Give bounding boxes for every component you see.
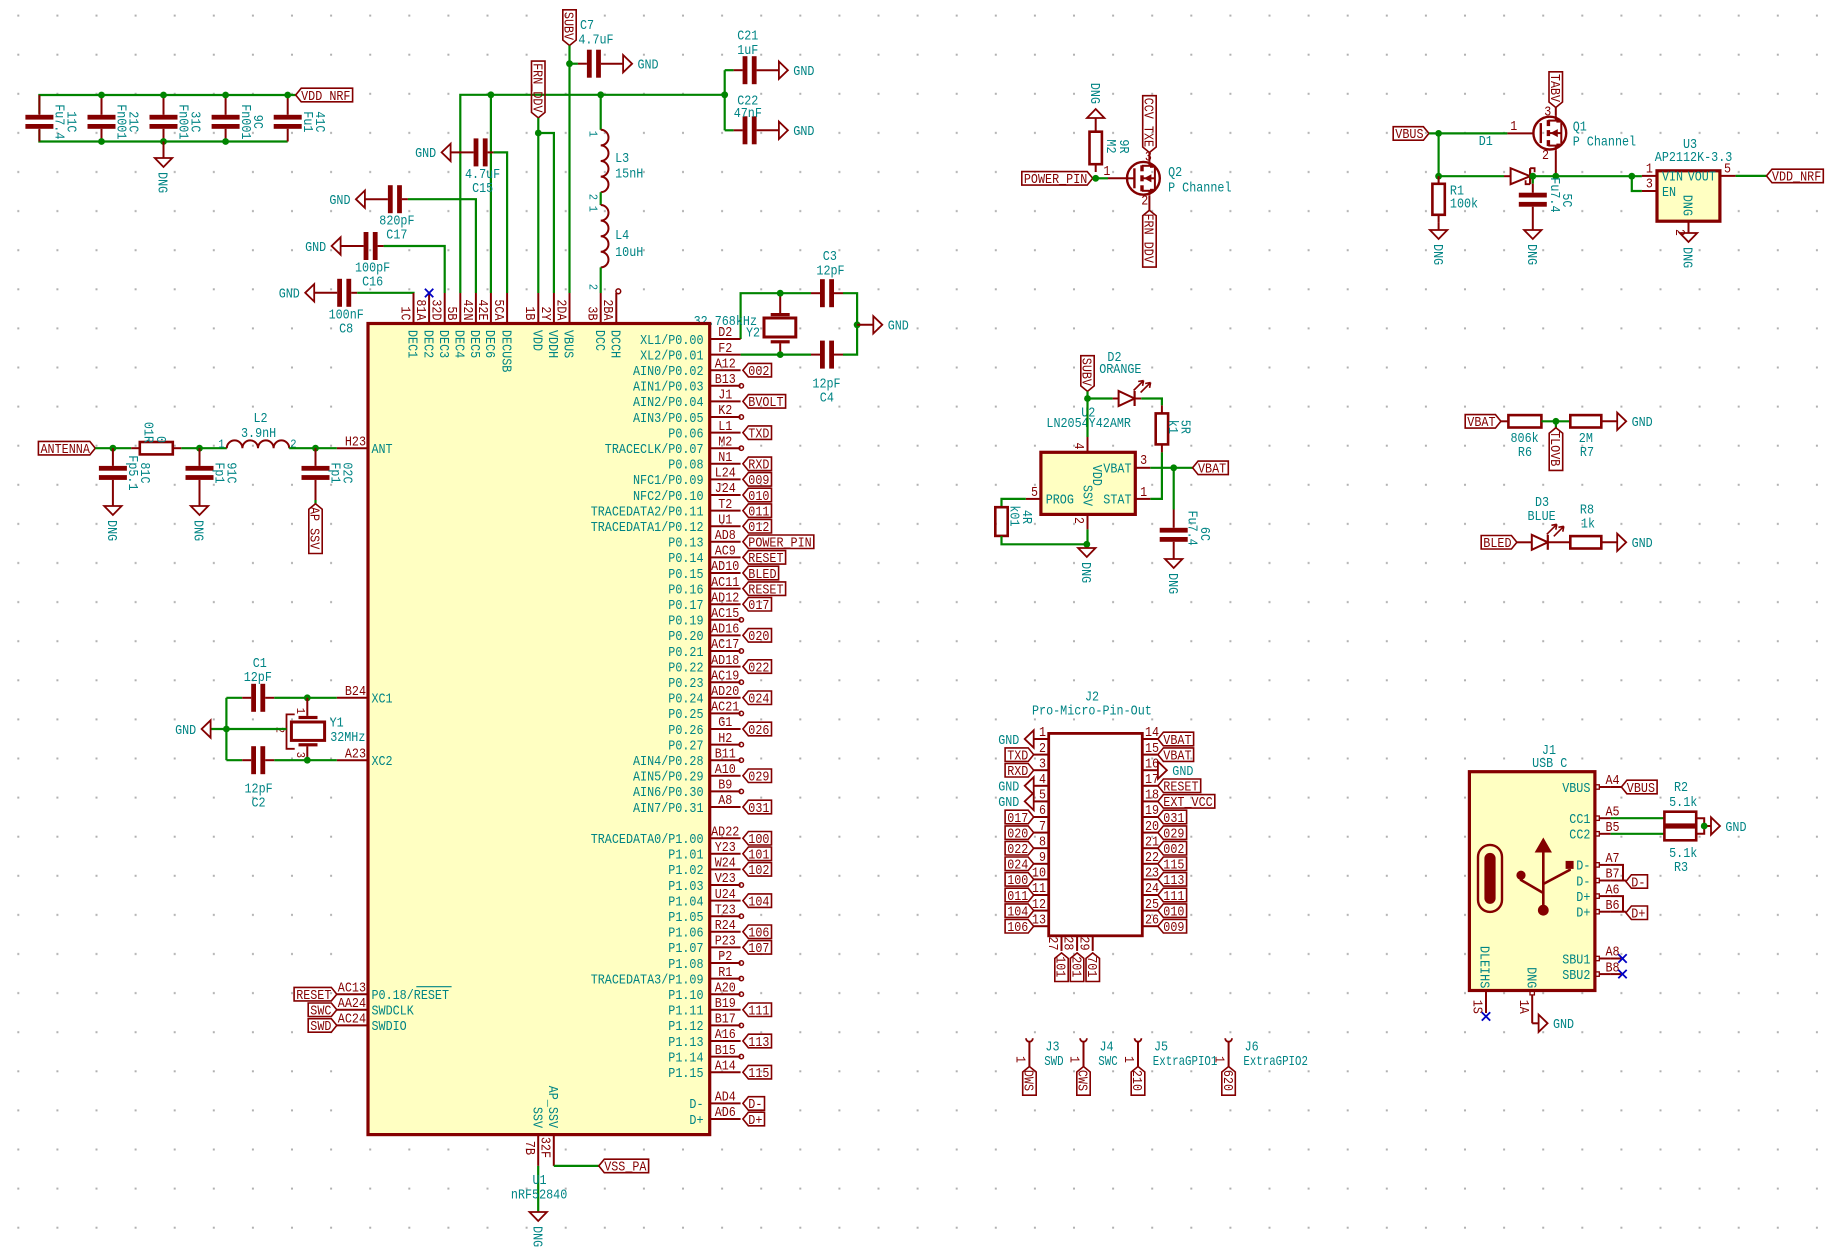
svg-text:USB C: USB C (1532, 756, 1567, 772)
pin 2 GND (1671, 195, 1695, 236)
power label VDD_NRF (296, 88, 353, 105)
pin AD8 P0.13 (668, 528, 740, 552)
svg-text:G1: G1 (718, 715, 732, 731)
svg-text:02C: 02C (339, 462, 355, 483)
label 100 (1005, 873, 1034, 890)
wire (1141, 399, 1162, 406)
svg-text:L2: L2 (254, 411, 268, 427)
junction (1435, 130, 1442, 137)
svg-text:L4: L4 (615, 228, 629, 244)
pin T2 TRACEDATA2/P0.11 (591, 497, 741, 521)
svg-text:P1.14: P1.14 (668, 1050, 703, 1066)
svg-text:102: 102 (748, 863, 769, 879)
svg-text:AIN4/P0.28: AIN4/P0.28 (633, 754, 704, 770)
svg-text:NFC1/P0.09: NFC1/P0.09 (633, 473, 704, 489)
pin AD4 D- (689, 1090, 740, 1114)
resistor R3 (1611, 827, 1698, 876)
pin 3 VBAT (1103, 453, 1150, 477)
wire VDD_NRF rail (460, 95, 724, 293)
svg-text:3: 3 (1646, 177, 1653, 193)
wire DEC6 (490, 95, 492, 293)
label VBAT (1158, 732, 1194, 749)
junction (721, 91, 728, 98)
power label EXT_VCC (1140, 96, 1157, 162)
wire C21 C22 branch (724, 70, 726, 130)
wire VBAT rail (1439, 175, 1511, 177)
pin 26 (1142, 912, 1159, 928)
pin 21 (1142, 834, 1159, 850)
resistor R9 (1090, 118, 1131, 172)
wire (568, 46, 570, 64)
svg-text:P0.13: P0.13 (668, 536, 703, 552)
pin 13 (1032, 912, 1049, 928)
label 009 (1158, 920, 1187, 937)
svg-text:1: 1 (1646, 162, 1653, 178)
pin AC9 P0.14 (668, 544, 740, 568)
svg-text:FRN_DDV: FRN_DDV (1140, 214, 1156, 264)
svg-text:41C: 41C (311, 111, 327, 132)
wire Q1 drain (1555, 150, 1557, 176)
wire XL2 to crystal (741, 354, 781, 356)
svg-text:P2: P2 (718, 949, 732, 965)
svg-text:DNG: DNG (1429, 244, 1445, 265)
svg-text:AD6: AD6 (715, 1105, 736, 1121)
capacitor C14 (274, 95, 327, 142)
svg-text:C21: C21 (737, 28, 758, 44)
pin P23 P1.07 (668, 934, 740, 958)
label 020 (743, 629, 772, 646)
svg-text:D1: D1 (1479, 134, 1493, 150)
label 022 (743, 660, 772, 677)
svg-text:P0.06: P0.06 (668, 426, 703, 442)
label 024 (1005, 857, 1034, 874)
wire VBUS to pin AD2 (568, 64, 570, 293)
svg-text:GND: GND (1632, 415, 1653, 431)
svg-text:022: 022 (748, 660, 769, 676)
junction (1628, 173, 1635, 180)
svg-text:RESET: RESET (748, 582, 783, 598)
pin N1 P0.08 (668, 450, 740, 474)
pin A23 XC2 (337, 746, 393, 770)
svg-text:VSS_PA: VSS_PA (604, 1160, 647, 1176)
power label VDD_NRF (1140, 196, 1157, 267)
label 115 (1158, 857, 1187, 874)
svg-text:D+: D+ (1631, 907, 1645, 923)
svg-text:1: 1 (218, 437, 224, 451)
svg-text:009: 009 (1163, 920, 1184, 936)
resistor R4 (995, 505, 1034, 536)
label 106 (1005, 920, 1034, 937)
svg-text:3.9nH: 3.9nH (241, 426, 276, 442)
unconnected pin end (739, 384, 743, 388)
svg-text:BLUE: BLUE (1528, 509, 1556, 525)
svg-text:31C: 31C (187, 111, 203, 132)
label 010 (1158, 904, 1187, 921)
capacitor C22 (725, 94, 779, 145)
capacitor C5 (1519, 176, 1574, 230)
svg-text:BLED: BLED (748, 567, 776, 583)
pin A14 P1.15 (668, 1058, 740, 1082)
svg-text:101: 101 (748, 848, 769, 864)
svg-text:B17: B17 (715, 1012, 736, 1028)
ground (1086, 83, 1105, 118)
svg-text:6C: 6C (1196, 527, 1212, 541)
unconnected pin end (739, 961, 743, 965)
pin AC15 P0.19 (668, 606, 740, 630)
pin 28 (1060, 936, 1077, 951)
svg-text:P Channel: P Channel (1573, 135, 1636, 151)
svg-text:TRACECLK/P0.07: TRACECLK/P0.07 (605, 442, 704, 458)
pin A20 P1.10 (668, 980, 740, 1004)
label RXD (1005, 764, 1034, 781)
svg-text:B19: B19 (715, 996, 736, 1012)
svg-text:A20: A20 (715, 980, 736, 996)
wire (1530, 175, 1642, 177)
ic U3 fields (1655, 137, 1733, 166)
svg-text:BLED: BLED (1483, 536, 1511, 552)
wire XL1 to crystal (741, 293, 781, 339)
label 106 (743, 925, 772, 942)
wire DCC (600, 267, 602, 293)
svg-text:7: 7 (1039, 819, 1046, 835)
svg-text:1: 1 (293, 708, 307, 714)
svg-text:A16: A16 (715, 1027, 736, 1043)
svg-text:029: 029 (748, 770, 769, 786)
svg-text:VDD_NRF: VDD_NRF (301, 89, 350, 105)
svg-text:42N: 42N (459, 299, 475, 320)
svg-text:19: 19 (1145, 803, 1159, 819)
svg-text:P1.05: P1.05 (668, 910, 703, 926)
svg-text:AD16: AD16 (711, 622, 739, 638)
svg-text:R7: R7 (1580, 445, 1594, 461)
svg-text:AD22: AD22 (711, 824, 739, 840)
svg-text:D-: D- (1576, 874, 1590, 890)
label 107 (743, 941, 772, 958)
svg-text:N1: N1 (718, 450, 732, 466)
svg-text:1: 1 (1011, 1056, 1027, 1063)
junction (535, 130, 542, 137)
ground (528, 1212, 547, 1247)
pin 6 (1034, 803, 1049, 819)
pin AD12 P0.17 (668, 590, 740, 614)
wire VSS_PA (554, 1165, 599, 1167)
wire EN (1632, 176, 1642, 191)
unconnected pin end (739, 1023, 743, 1027)
no-connect DEC2 (425, 289, 433, 297)
svg-text:nRF52840: nRF52840 (511, 1188, 567, 1204)
svg-text:201: 201 (1067, 956, 1083, 977)
svg-text:104: 104 (1007, 904, 1028, 920)
svg-text:2: 2 (1141, 193, 1148, 209)
unconnected pin end (739, 758, 743, 762)
svg-text:C15: C15 (472, 181, 493, 197)
ground (1429, 223, 1448, 265)
capacitor C13 (150, 95, 203, 142)
svg-text:A23: A23 (345, 746, 366, 762)
capacitor C2 (226, 746, 290, 811)
svg-text:031: 031 (748, 801, 769, 817)
svg-text:DCCH: DCCH (607, 330, 623, 358)
wire gnd bottom rail (39, 130, 287, 142)
svg-text:P1.11: P1.11 (668, 1004, 703, 1020)
pin AC5 DECUSB (490, 293, 513, 372)
pin A1 GND (1515, 967, 1539, 1023)
svg-text:XC1: XC1 (372, 692, 393, 708)
connector J1 body (1469, 772, 1595, 991)
svg-text:3B: 3B (584, 306, 600, 320)
svg-text:42E: 42E (474, 299, 490, 320)
pin 29 (1075, 936, 1092, 951)
label 011 (1005, 888, 1034, 905)
svg-text:C3: C3 (823, 249, 837, 265)
svg-text:DWS: DWS (1020, 1070, 1036, 1091)
pin H23 ANT (337, 434, 393, 458)
pin K2 AIN3/P0.05 (633, 403, 741, 427)
label D- (743, 1097, 765, 1114)
pin B11 AIN4/P0.28 (633, 746, 741, 770)
svg-text:POWER_PIN: POWER_PIN (748, 536, 811, 552)
svg-text:SWC: SWC (310, 1004, 331, 1020)
power label VBUS (560, 10, 577, 46)
svg-text:1: 1 (1039, 725, 1046, 741)
ground (1617, 534, 1653, 553)
svg-text:002: 002 (748, 364, 769, 380)
svg-text:2BA: 2BA (599, 299, 615, 321)
svg-text:024: 024 (1007, 858, 1028, 874)
svg-text:RXD: RXD (748, 458, 769, 474)
svg-text:91C: 91C (223, 462, 239, 483)
resistor R5 (1156, 405, 1193, 452)
no-connect SBU1 (1611, 954, 1627, 962)
svg-text:DNG: DNG (1523, 244, 1539, 265)
label 010 (743, 488, 772, 505)
svg-text:C8: C8 (339, 321, 353, 337)
svg-text:16: 16 (1145, 756, 1159, 772)
ground (998, 793, 1033, 812)
svg-text:012: 012 (748, 520, 769, 536)
svg-text:VDDH: VDDH (544, 330, 560, 358)
transistor Q1 (1479, 104, 1636, 163)
svg-text:Q2: Q2 (1168, 165, 1182, 181)
svg-text:R6: R6 (1518, 445, 1532, 461)
label 031 (743, 800, 772, 817)
power label BVOLT (1546, 421, 1563, 470)
pin AD6 D+ (689, 1105, 740, 1129)
resistor R1 (1432, 176, 1478, 223)
svg-text:DEC1: DEC1 (404, 330, 420, 358)
svg-text:5C: 5C (1558, 193, 1574, 207)
svg-text:DNG: DNG (1679, 195, 1695, 216)
svg-text:210: 210 (1128, 1070, 1144, 1091)
junction (1170, 464, 1177, 471)
unconnected pin end (739, 711, 743, 715)
svg-text:AC17: AC17 (711, 637, 739, 653)
svg-text:017: 017 (1007, 811, 1028, 827)
svg-text:VBUS: VBUS (1395, 127, 1423, 143)
svg-text:D-: D- (1631, 875, 1645, 891)
pin 5 (1034, 788, 1049, 804)
svg-text:017: 017 (748, 598, 769, 614)
pin D2 XL1/P0.00 (640, 325, 741, 349)
power label VBAT (1465, 415, 1501, 432)
pin 1 VIN (1642, 162, 1683, 186)
svg-text:3: 3 (1140, 453, 1147, 469)
unconnected pin end (739, 789, 743, 793)
svg-text:Q1: Q1 (1573, 120, 1587, 136)
junction (854, 321, 861, 328)
svg-text:Y23: Y23 (715, 840, 736, 856)
label 101 (743, 847, 772, 864)
svg-text:6: 6 (1039, 803, 1046, 819)
svg-text:EN: EN (1662, 185, 1676, 201)
label VBUS (1611, 780, 1658, 797)
junction (222, 92, 229, 99)
pin A8 SBU1 (1562, 945, 1619, 969)
svg-text:1: 1 (1103, 164, 1110, 180)
unconnected pin end (739, 618, 743, 622)
junction (1701, 823, 1708, 830)
svg-text:ANT: ANT (372, 442, 393, 458)
svg-text:17: 17 (1145, 772, 1159, 788)
pin AB2 DCCH (599, 293, 622, 358)
label 009 (743, 473, 772, 490)
resistor R7 (1570, 415, 1617, 461)
svg-text:1k: 1k (1581, 516, 1595, 532)
svg-text:SWC: SWC (1098, 1054, 1117, 1070)
unconnected pin end (739, 992, 743, 996)
ground (779, 122, 814, 141)
unconnected pin end (739, 976, 743, 980)
svg-text:SUBV: SUBV (1078, 358, 1094, 387)
label VBAT (1193, 461, 1229, 478)
svg-text:R24: R24 (715, 918, 736, 934)
svg-text:1A: 1A (1515, 1000, 1531, 1015)
svg-text:DEC3: DEC3 (435, 330, 451, 358)
pin B5 CC2 (1569, 820, 1619, 844)
pin F2 XL2/P0.01 (640, 341, 741, 365)
svg-text:B9: B9 (718, 778, 732, 794)
svg-text:32F: 32F (536, 1137, 552, 1158)
svg-text:1C: 1C (396, 306, 412, 320)
pin H2 P0.27 (668, 731, 740, 755)
pin Y23 P1.01 (668, 840, 740, 864)
svg-text:026: 026 (748, 723, 769, 739)
svg-text:XL2/P0.01: XL2/P0.01 (640, 348, 703, 364)
pin AD10 P0.15 (668, 559, 740, 583)
label TXD (743, 426, 772, 443)
label BLED (743, 566, 779, 583)
svg-text:VBAT: VBAT (1163, 733, 1191, 749)
wire antenna (95, 447, 131, 449)
svg-text:DCC: DCC (591, 330, 607, 351)
pin 4 VDD (1070, 437, 1104, 486)
svg-text:P Channel: P Channel (1168, 180, 1231, 196)
svg-text:VOUT: VOUT (1688, 170, 1716, 186)
wire crystal case gnd (211, 728, 287, 730)
svg-text:V23: V23 (715, 871, 736, 887)
wire (1086, 399, 1088, 438)
svg-text:A8: A8 (718, 793, 732, 809)
wire VDD_NRF top rail (39, 95, 295, 114)
capacitor C1 (226, 656, 290, 712)
svg-text:AD18: AD18 (711, 653, 739, 669)
svg-text:BVOLT: BVOLT (748, 395, 783, 411)
svg-text:CCV_TXE: CCV_TXE (1140, 98, 1156, 147)
unconnected pin end (739, 680, 743, 684)
label 024 (743, 691, 772, 708)
svg-text:32D: 32D (428, 299, 444, 320)
pin AD22 TRACEDATA0/P1.00 (591, 824, 741, 848)
pin B7 D- (1576, 867, 1619, 891)
ground (175, 720, 211, 739)
label SWC (308, 1003, 337, 1020)
wire (289, 447, 337, 449)
svg-text:P0.24: P0.24 (668, 692, 703, 708)
wire left spine (225, 698, 227, 760)
svg-text:DNG: DNG (1077, 562, 1093, 583)
power label VSS_PA (306, 500, 323, 554)
pin 7 (1034, 819, 1049, 835)
svg-text:L24: L24 (715, 466, 736, 482)
svg-text:AIN1/P0.03: AIN1/P0.03 (633, 380, 704, 396)
ic U1 reference (511, 1173, 567, 1204)
svg-text:P0.25: P0.25 (668, 707, 703, 723)
svg-text:022: 022 (1007, 842, 1028, 858)
svg-text:27: 27 (1044, 936, 1060, 950)
pin A16 P1.13 (668, 1027, 740, 1051)
unconnected pin end (739, 742, 743, 746)
label 026 (743, 722, 772, 739)
svg-text:EXT_VCC: EXT_VCC (1163, 795, 1212, 811)
pin 15 (1142, 741, 1159, 757)
svg-text:PROG: PROG (1046, 493, 1074, 509)
capacitor C6 (1160, 468, 1212, 559)
svg-text:18: 18 (1145, 788, 1159, 804)
svg-text:25: 25 (1145, 897, 1159, 913)
led D3 (1517, 495, 1564, 550)
pin AC13 P0.18/RESET (337, 980, 452, 1004)
svg-text:029: 029 (1163, 826, 1184, 842)
svg-text:701: 701 (1083, 956, 1099, 977)
pin 3 EN (1642, 177, 1676, 201)
svg-text:SUBV: SUBV (560, 12, 576, 41)
svg-text:DEC5: DEC5 (466, 330, 482, 358)
svg-text:P0.27: P0.27 (668, 738, 703, 754)
svg-text:100: 100 (1007, 873, 1028, 889)
pin 16 (1142, 756, 1159, 772)
svg-text:F2: F2 (718, 341, 732, 357)
svg-text:P0.16: P0.16 (668, 582, 703, 598)
svg-text:VDD_NRF: VDD_NRF (1772, 170, 1821, 186)
svg-text:AD4: AD4 (715, 1090, 736, 1106)
svg-text:Y2: Y2 (746, 325, 760, 341)
svg-text:5.1k: 5.1k (1669, 795, 1697, 811)
label 020 (1005, 826, 1034, 843)
pin T23 P1.05 (668, 902, 740, 926)
svg-text:U1: U1 (718, 512, 732, 528)
svg-text:L3: L3 (615, 151, 629, 167)
svg-text:DEC2: DEC2 (419, 330, 435, 358)
label 111 (743, 1003, 772, 1020)
svg-text:D+: D+ (1576, 906, 1590, 922)
ic U1 nRF52840 body (368, 324, 710, 1135)
connector J2 fields (1032, 690, 1152, 720)
junction (1529, 173, 1536, 180)
label RESET (294, 987, 337, 1004)
svg-text:115: 115 (748, 1066, 769, 1082)
svg-text:AD12: AD12 (711, 590, 739, 606)
svg-text:M2: M2 (718, 434, 732, 450)
